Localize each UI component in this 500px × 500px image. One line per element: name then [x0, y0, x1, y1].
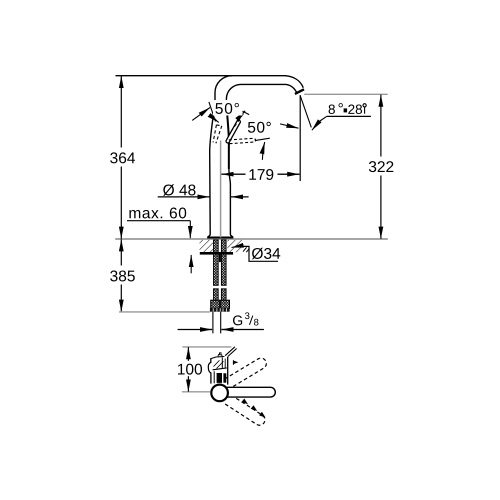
arrowhead on lever axis [240, 111, 245, 117]
spout end face [295, 89, 304, 94]
dashed lever lower [224, 395, 265, 425]
arrowhead on arc right side [214, 118, 219, 122]
dim 364 [120, 76, 122, 239]
ext line top (gray) [182, 346, 231, 348]
body right edge upper thick [226, 102, 228, 169]
plan inner lines [221, 357, 223, 368]
wire: top extension line 364 + spout outer top [116, 75, 287, 77]
stream angle line [300, 95, 311, 127]
countertop hatch left [200, 240, 243, 252]
dim 385 [120, 239, 122, 312]
leader arrow to drop line [280, 124, 299, 128]
dim 100 [187, 347, 189, 392]
break slash [225, 347, 237, 357]
spout inner contour [226, 84, 297, 102]
leader arrow to line A [192, 108, 210, 121]
spout outer contour [215, 76, 303, 102]
solid lever capsule [223, 387, 275, 397]
hose fittings [211, 300, 220, 308]
outlet drop line [299, 95, 301, 181]
ext line 322 top [304, 93, 388, 95]
plan aerator ticks [218, 353, 222, 357]
lever closed dashed (near vertical) [213, 125, 222, 143]
small flag [232, 360, 234, 365]
plan cartridge bars [217, 373, 222, 383]
dim 179 [221, 173, 299, 175]
label 50 deg upper [213, 100, 243, 116]
ext line bottom (gray) [182, 391, 210, 393]
angle ref line A [209, 102, 216, 122]
label 50 deg lower [246, 120, 274, 135]
washer bar [200, 252, 233, 255]
label underline [327, 115, 371, 117]
leader arrow up to axis [262, 142, 264, 160]
lever axis dashed extension [231, 114, 244, 132]
leader to stream line [319, 116, 326, 121]
label 8d28m [329, 104, 335, 114]
body left edge [208, 102, 215, 238]
plan spout tube [210, 358, 212, 363]
body centerline gray [220, 141, 222, 238]
dim 322 [380, 95, 382, 239]
ext line hose end [119, 311, 210, 313]
body right edge lower [229, 169, 233, 237]
label max 60 [129, 207, 186, 218]
plan lever bulge left [208, 362, 211, 373]
center pin [219, 253, 221, 262]
G3/8 dim [178, 329, 212, 331]
dashed lever upper [225, 358, 267, 386]
rotation arrowheads [242, 399, 249, 405]
tick at lever axis end [239, 109, 250, 114]
lever solid (open) [228, 122, 239, 141]
lever horizontal dashed [229, 138, 256, 143]
base bottom [207, 237, 233, 239]
axis line of horizontal lever [255, 138, 270, 140]
label dia48 [163, 184, 195, 196]
shank hatched strips [214, 240, 219, 285]
hose lower parts [214, 289, 219, 300]
label G3/8 [233, 315, 242, 325]
G3/8 pipe [212, 312, 214, 334]
body circle [211, 385, 228, 402]
label dia34 with bracket leader [235, 246, 278, 261]
countertop line [115, 238, 388, 240]
